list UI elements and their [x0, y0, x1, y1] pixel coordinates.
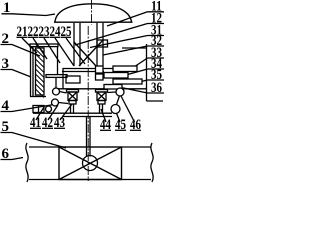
side port box [97, 40, 108, 47]
dome top cover [55, 4, 132, 22]
shaft [86, 117, 88, 157]
tank break line right [151, 143, 153, 182]
node label 32 [151, 33, 162, 49]
node label 3 [2, 56, 10, 72]
housing outline [63, 69, 113, 90]
node label 34 [151, 56, 162, 72]
housing inner box [66, 76, 80, 83]
wire leader 35 [139, 80, 148, 82]
wire leader 3 [1, 70, 32, 78]
wire leader 22 [33, 38, 47, 59]
wire leader 41 [36, 107, 44, 120]
motor right body [97, 92, 106, 101]
tank bottom line [29, 179, 151, 181]
node label 22 [28, 24, 39, 40]
node label 45 [115, 117, 126, 133]
stack small box 1 [96, 66, 104, 73]
wire leader 33 [134, 58, 148, 67]
joint circle left upper [53, 88, 60, 95]
node label 1 [3, 0, 11, 16]
plate bar C [113, 79, 142, 84]
node label 42 [42, 115, 53, 131]
motor left flange [67, 90, 79, 93]
brace diagonal right [79, 40, 103, 66]
wire leader 31 [90, 36, 148, 48]
motor left block [69, 101, 76, 105]
tank top line right [122, 146, 152, 148]
frame top bar left [30, 44, 58, 47]
foot bracket [33, 106, 44, 113]
node label 44 [100, 117, 111, 133]
motor right flange [96, 90, 108, 93]
node label 36 [151, 80, 162, 96]
wire leader 23 [44, 38, 60, 63]
node label 4 [2, 98, 10, 114]
centerline axis main [87, 26, 89, 181]
node label 46 [130, 117, 141, 133]
wire leader 4 [1, 104, 58, 112]
stirrer hub circle [83, 156, 98, 171]
motor right block [98, 101, 105, 105]
node label 2 [2, 31, 10, 47]
hatched column [36, 48, 45, 95]
wire leader 44 [101, 109, 106, 122]
motor left legs [70, 104, 72, 114]
frame bottom cap [30, 96, 46, 98]
stirrer box [59, 147, 122, 180]
node label 31 [151, 23, 162, 39]
node label 41 [30, 115, 41, 131]
wire leader 36 [121, 88, 148, 94]
wire leader 25 [66, 38, 85, 64]
wire leader 6 [1, 158, 24, 160]
node label 24 [50, 24, 61, 40]
node label 25 [61, 24, 72, 40]
joint circle right lower [111, 105, 120, 114]
pipe left wall [73, 23, 75, 66]
wire leader 24 [55, 38, 74, 66]
wire leader 21 [22, 38, 37, 53]
wire leader 11 [107, 12, 148, 26]
wire leader 46 [121, 96, 135, 122]
wire leader 1 [2, 14, 56, 16]
tank top line left [29, 146, 59, 148]
arm bar [46, 75, 67, 78]
node label 35 [151, 67, 162, 83]
wire leader 2 [1, 45, 41, 57]
plate bar A [113, 66, 137, 72]
node label 6 [2, 146, 10, 162]
housing right wall [146, 44, 148, 101]
wire leader 43 [60, 104, 72, 120]
motor left body [68, 92, 77, 101]
node label 23 [39, 24, 50, 40]
stack small box 2 [96, 74, 104, 80]
node label 33 [151, 45, 162, 61]
plate bar B [104, 73, 128, 79]
wire leader 32 [103, 46, 148, 55]
frame inner wall [57, 47, 59, 76]
centerline axis top [91, 0, 93, 25]
wire leader 45 [114, 107, 120, 122]
tank break line left [26, 143, 28, 182]
joint circle left lower [52, 99, 59, 106]
wire leader 34 [126, 69, 148, 75]
node label 43 [54, 115, 65, 131]
node label 12 [151, 11, 162, 27]
base plate [33, 112, 112, 114]
node label 21 [17, 24, 28, 40]
stirrer cross [59, 147, 122, 180]
pipe right wall [96, 23, 98, 66]
joint circle right upper [116, 88, 124, 96]
foot circle [46, 106, 52, 112]
wire leader 42 [48, 105, 58, 120]
motor right legs [99, 104, 101, 114]
wire leader 12 [75, 24, 148, 46]
plate bar D [104, 85, 122, 90]
wire leader 5 [1, 133, 67, 149]
frame left wall [30, 47, 32, 97]
brace diagonal left [74, 42, 96, 66]
link rod [55, 78, 57, 89]
node label 11 [151, 0, 162, 15]
node label 5 [2, 119, 10, 135]
